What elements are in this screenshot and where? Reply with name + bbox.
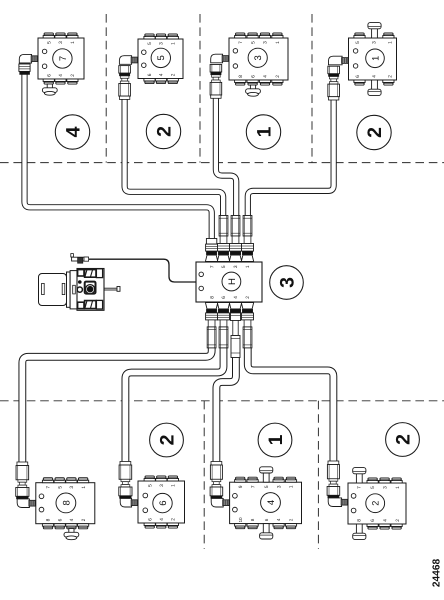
svg-text:5: 5	[264, 485, 270, 488]
svg-text:6: 6	[147, 518, 153, 521]
svg-text:2: 2	[81, 518, 87, 521]
svg-text:3: 3	[263, 41, 269, 44]
svg-text:4: 4	[159, 73, 165, 76]
svg-text:1: 1	[81, 486, 87, 489]
svg-text:2: 2	[70, 74, 76, 77]
svg-text:3: 3	[276, 485, 282, 488]
svg-text:1: 1	[254, 126, 276, 137]
svg-text:3: 3	[58, 41, 64, 44]
svg-text:4: 4	[69, 518, 75, 521]
svg-text:2: 2	[393, 434, 415, 445]
svg-text:5: 5	[147, 42, 153, 45]
svg-text:5: 5	[156, 55, 167, 60]
svg-text:2: 2	[245, 296, 251, 299]
svg-text:6: 6	[221, 296, 227, 299]
svg-text:7: 7	[58, 56, 69, 61]
svg-text:8: 8	[61, 500, 72, 505]
svg-text:4: 4	[266, 500, 277, 505]
svg-text:2: 2	[171, 73, 177, 76]
svg-text:8: 8	[238, 75, 244, 78]
svg-text:1: 1	[275, 41, 281, 44]
svg-text:1: 1	[265, 434, 287, 445]
svg-text:2: 2	[395, 519, 401, 522]
svg-text:7: 7	[250, 485, 256, 488]
svg-text:7: 7	[46, 486, 52, 489]
svg-text:4: 4	[263, 75, 269, 78]
svg-text:8: 8	[209, 296, 215, 299]
svg-text:5: 5	[46, 41, 52, 44]
svg-text:4: 4	[383, 519, 389, 522]
svg-text:3: 3	[253, 55, 264, 60]
svg-text:1: 1	[70, 41, 76, 44]
svg-text:2: 2	[364, 127, 386, 138]
svg-text:5: 5	[147, 484, 153, 487]
svg-text:3: 3	[277, 277, 299, 288]
svg-text:5: 5	[250, 41, 256, 44]
svg-text:1: 1	[289, 485, 295, 488]
svg-text:6: 6	[46, 74, 52, 77]
svg-text:4: 4	[58, 74, 64, 77]
svg-text:1: 1	[171, 484, 177, 487]
svg-text:2: 2	[154, 126, 176, 137]
svg-text:4: 4	[372, 75, 378, 78]
svg-text:2: 2	[275, 75, 281, 78]
svg-text:6: 6	[57, 518, 63, 521]
svg-text:4: 4	[233, 296, 239, 299]
svg-text:6: 6	[250, 75, 256, 78]
svg-text:5: 5	[221, 265, 227, 268]
svg-text:3: 3	[233, 265, 239, 268]
svg-text:2: 2	[171, 518, 177, 521]
svg-text:6: 6	[355, 75, 361, 78]
svg-text:1: 1	[370, 56, 380, 61]
svg-text:1: 1	[245, 265, 251, 268]
svg-text:3: 3	[383, 486, 389, 489]
svg-text:7: 7	[209, 265, 215, 268]
svg-text:24468: 24468	[432, 559, 443, 588]
svg-text:H: H	[227, 278, 238, 285]
svg-text:1: 1	[395, 486, 401, 489]
svg-text:5: 5	[57, 486, 63, 489]
svg-text:4: 4	[63, 126, 85, 137]
svg-text:6: 6	[158, 500, 169, 505]
svg-text:3: 3	[69, 486, 75, 489]
svg-text:7: 7	[238, 41, 244, 44]
svg-text:8: 8	[356, 519, 362, 522]
svg-text:1: 1	[388, 41, 394, 44]
svg-text:6: 6	[147, 73, 153, 76]
svg-text:3: 3	[372, 41, 378, 44]
svg-text:6: 6	[370, 519, 376, 522]
svg-text:5: 5	[370, 486, 376, 489]
svg-text:7: 7	[356, 486, 362, 489]
svg-text:9: 9	[238, 485, 244, 488]
svg-text:3: 3	[159, 484, 165, 487]
svg-text:5: 5	[355, 41, 361, 44]
svg-text:2: 2	[157, 434, 179, 445]
svg-text:1: 1	[171, 42, 177, 45]
svg-text:10: 10	[238, 517, 243, 522]
svg-text:2: 2	[371, 501, 381, 506]
svg-text:4: 4	[159, 518, 165, 521]
svg-text:3: 3	[159, 42, 165, 45]
svg-text:8: 8	[46, 518, 52, 521]
svg-text:2: 2	[388, 75, 394, 78]
